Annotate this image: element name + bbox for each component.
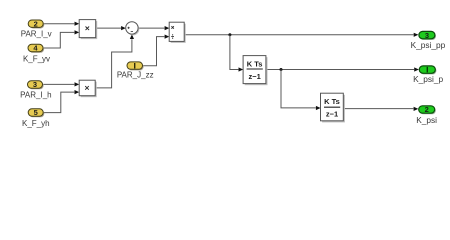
junction node integrator1 output branch	[280, 68, 283, 71]
wire product P1 output to sum	[96, 26, 126, 30]
svg-text:2: 2	[425, 105, 429, 114]
integrator2 K Ts/(z-1)	[321, 93, 345, 122]
product P2	[79, 80, 97, 97]
label PAR_I_h	[20, 91, 51, 100]
inport 1	[127, 62, 144, 71]
svg-text:K Ts: K Ts	[247, 59, 263, 68]
svg-text:K_psi_pp: K_psi_pp	[411, 40, 446, 50]
outport 3	[419, 31, 436, 40]
svg-text:K_F_yh: K_F_yh	[22, 119, 50, 128]
wire product P2 output up to sum bottom input	[95, 34, 134, 88]
label K_psi_pp	[411, 40, 446, 50]
svg-text:5: 5	[34, 108, 38, 117]
wire integrator2 output to outport2 K_psi	[344, 107, 419, 111]
outport 2	[419, 105, 436, 114]
svg-text:z−1: z−1	[326, 110, 338, 119]
label K_F_yv	[23, 54, 50, 63]
wire integrator1 output to outport1 K_psi_p	[266, 67, 419, 71]
inport 2	[28, 19, 44, 28]
junction node divide output branch	[228, 33, 231, 36]
svg-text:PAR_I_h: PAR_I_h	[20, 91, 51, 100]
integrator1 K Ts/(z-1)	[243, 56, 267, 86]
sum block	[126, 22, 140, 36]
label K_F_yh	[22, 119, 50, 128]
outport 1	[419, 66, 436, 75]
label PAR_I_v	[21, 29, 52, 38]
svg-text:K_F_yv: K_F_yv	[23, 54, 50, 63]
svg-text:3: 3	[425, 31, 429, 40]
label PAR_J_zz	[117, 70, 154, 79]
divide block	[169, 22, 186, 43]
wire inport3 to product P2 input1	[43, 82, 79, 86]
label K_psi	[416, 115, 437, 125]
wire inport1 PAR_J_zz to divide input2	[143, 35, 170, 66]
product P1	[79, 20, 97, 39]
inport 3	[28, 80, 44, 89]
wire junction down to integrator2 input	[281, 70, 321, 111]
wire inport2 to product P1 input1	[43, 22, 79, 26]
inport 5	[28, 108, 44, 117]
svg-text:2: 2	[34, 19, 38, 28]
svg-text:PAR_J_zz: PAR_J_zz	[117, 70, 154, 79]
svg-text:K_psi_p: K_psi_p	[413, 74, 443, 84]
wire divide output to outport3 K_psi_pp	[185, 33, 419, 37]
wire inport4 to product P1 input2	[44, 30, 79, 48]
label K_psi_p	[413, 74, 443, 84]
wire inport5 to product P2 input2	[44, 90, 79, 113]
svg-text:PAR_I_v: PAR_I_v	[21, 29, 52, 38]
wire sum output to divide input1	[138, 26, 169, 30]
svg-text:K Ts: K Ts	[324, 97, 340, 106]
wire junction down to integrator1 input	[230, 35, 243, 72]
svg-text:3: 3	[33, 80, 37, 89]
svg-text:K_psi: K_psi	[416, 115, 437, 125]
svg-text:z−1: z−1	[248, 72, 260, 81]
inport 4	[28, 44, 44, 53]
